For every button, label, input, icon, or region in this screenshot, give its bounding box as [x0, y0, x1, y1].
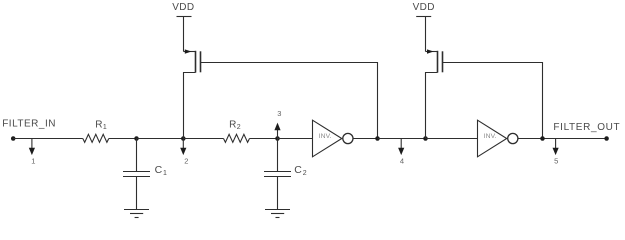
terminal dot output	[604, 136, 609, 141]
svg-text:2: 2	[303, 170, 307, 177]
svg-text:FILTER_IN: FILTER_IN	[2, 119, 56, 130]
ground (C1)	[124, 210, 149, 218]
wire input to R1	[13, 138, 83, 140]
wire M2 gate to node 5	[443, 63, 543, 139]
wire node 3 to inverter U1	[278, 138, 313, 140]
wire M1 gate to node 4	[201, 63, 378, 139]
resistor R2	[224, 134, 250, 142]
svg-text:2: 2	[237, 124, 241, 131]
transistor M2	[426, 17, 443, 139]
node 4 junction dot	[375, 136, 380, 141]
wire C1 tap to node 2	[137, 138, 184, 140]
wire U2 out to terminal	[518, 138, 607, 140]
wire M2 source junction to inverter U2	[426, 138, 478, 140]
VDD bar (M2)	[416, 16, 431, 18]
node 2 junction dot	[181, 136, 186, 141]
svg-text:VDD: VDD	[172, 2, 194, 13]
svg-text:FILTER_OUT: FILTER_OUT	[553, 122, 620, 133]
inverter U2	[478, 120, 518, 157]
ground (C2)	[265, 210, 290, 218]
svg-text:5: 5	[554, 156, 558, 165]
VDD bar (M1)	[177, 16, 192, 18]
capacitor C1	[123, 139, 150, 210]
svg-text:1: 1	[103, 124, 107, 131]
node 3 probe arrow	[274, 109, 281, 138]
svg-text:1: 1	[31, 156, 35, 165]
wire node 2 to R2	[183, 138, 223, 140]
node 5 probe arrow	[553, 139, 559, 165]
svg-text:3: 3	[277, 109, 281, 118]
svg-text:INV.: INV.	[484, 133, 497, 140]
node 2 probe arrow	[180, 139, 188, 165]
svg-text:C: C	[155, 164, 163, 176]
node 4 probe arrow	[398, 139, 404, 165]
svg-text:VDD: VDD	[413, 2, 435, 13]
svg-text:R: R	[95, 119, 102, 130]
inverter U1	[313, 120, 354, 157]
wire R1 to C1 tap	[109, 138, 137, 140]
svg-text:C: C	[294, 164, 302, 176]
node 5 junction dot	[540, 136, 545, 141]
wire R2 to node 3	[250, 138, 278, 140]
svg-text:INV.: INV.	[319, 133, 332, 140]
svg-text:4: 4	[400, 156, 404, 165]
junction dot M2 source	[423, 136, 428, 141]
svg-text:2: 2	[184, 156, 188, 165]
terminal dot input	[11, 136, 16, 141]
capacitor C2	[264, 139, 291, 210]
svg-text:1: 1	[163, 170, 167, 177]
resistor R1	[83, 134, 109, 142]
transistor M1	[184, 17, 201, 139]
junction dot C1 tap	[134, 136, 139, 141]
node 3 junction dot	[275, 136, 280, 141]
wire U1 out to node 4	[353, 138, 378, 140]
node 1 probe arrow	[29, 139, 36, 165]
svg-text:R: R	[229, 119, 236, 130]
wire node 4 to M2 source junction	[378, 138, 426, 140]
